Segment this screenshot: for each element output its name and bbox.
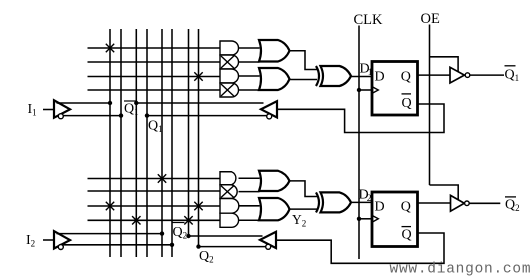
wire I1 input lead: [43, 109, 54, 111]
node junction I2 inverted / column: [170, 243, 174, 247]
bubble on T1 output: [465, 73, 470, 78]
buffer B4 (feedback buffer from FF2, points left): [260, 232, 276, 248]
wire AND-array product line P2: [88, 61, 221, 63]
svg-text:Q: Q: [401, 199, 411, 214]
bubble on B3 inverting output: [267, 114, 272, 119]
svg-text:Q: Q: [402, 96, 412, 111]
wire I2 input lead: [43, 239, 54, 241]
programmed X inside cell A2: [221, 56, 234, 68]
svg-text:D: D: [375, 199, 385, 214]
wire AND-array product line P8: [88, 219, 221, 221]
wire G2 output to X1 lower input: [290, 79, 318, 81]
pin U2 Qbar overline: [402, 226, 412, 228]
wire I1 inverted output to column: [63, 115, 121, 117]
AND-array cell A7: [220, 199, 239, 214]
xor-gate X1 body: [321, 66, 352, 86]
node junction CLK/U1: [357, 88, 361, 92]
programmed X inside cell A4: [221, 84, 234, 96]
node junction Q1 feedback / column: [145, 113, 149, 117]
or-gate G2: [259, 68, 290, 90]
connection cross X at P3-Q2: [194, 72, 202, 80]
wire AND-array product line P6: [88, 190, 221, 192]
wire AND-array product line P1: [88, 47, 221, 49]
wire vertical array line Q2bar feedback: [188, 29, 190, 236]
node Q2bar output label overline: [505, 196, 516, 198]
wire vertical array line Q1bar feedback: [135, 29, 137, 257]
node junction I1 true / column: [108, 101, 112, 105]
wire AND-array product line P7: [88, 205, 221, 207]
node junction Q2 feedback / column: [196, 244, 200, 248]
wire Q2 feedback inverted output to column: [199, 246, 266, 248]
wire U2 Qbar feedback to buffer B4: [276, 233, 444, 263]
wire X2 output to U2 D input: [351, 201, 372, 203]
svg-text:www.diangon.com: www.diangon.com: [390, 262, 531, 278]
wire T2 output lead: [469, 202, 500, 204]
wire U1 Qbar feedback to buffer B3: [277, 104, 444, 133]
connection cross X at P5-I2: [158, 174, 166, 182]
wire I1 true output to column: [57, 102, 111, 104]
wire U2 Q to tri-state T2: [418, 202, 451, 204]
AND-array cell A3: [220, 69, 239, 83]
svg-text:Q: Q: [401, 69, 411, 84]
programmed X inside cell A6: [221, 186, 234, 198]
node junction CLK/U2: [357, 217, 361, 221]
AND-array cell A5: [220, 172, 236, 185]
wire vertical array line I2 complement: [171, 29, 173, 257]
wire cell A7 output stub: [239, 205, 260, 207]
connection cross X at P7-I1: [106, 202, 114, 210]
connection cross X at P8-Q2bar: [184, 216, 192, 224]
AND-array cell A4: [220, 83, 239, 97]
pin U2 clock wedge: [372, 215, 378, 222]
node Q1bar column label overline: [124, 100, 136, 102]
wire AND-array product line P4: [88, 89, 221, 91]
wire CLK to U1 clock: [359, 89, 372, 91]
wire X1 output to U1 D input: [351, 76, 372, 78]
bubble on B1 inverting output: [58, 114, 63, 119]
xor-gate X2 input curve: [316, 192, 319, 212]
AND-array cell A8: [220, 213, 239, 227]
svg-text:CLK: CLK: [354, 12, 384, 28]
wire cell A4 output stub: [239, 89, 260, 91]
node junction I2 true / column: [160, 231, 164, 235]
wire cell A6 output stub: [239, 191, 260, 193]
svg-text:D: D: [375, 70, 385, 85]
wire U1 Q to tri-state T1: [418, 74, 451, 76]
wire cell A3 output stub: [239, 75, 260, 77]
node Q1bar output label overline: [505, 65, 516, 67]
wire Q2bar feedback output to column: [189, 235, 263, 237]
wire vertical array line Q1 feedback: [146, 29, 148, 257]
wire CLK vertical line: [358, 26, 360, 260]
node junction I1 inverted / column: [119, 113, 123, 117]
wire vertical array line Q2 feedback: [198, 29, 200, 247]
or-gate G4: [259, 198, 290, 220]
tri-state inverter T1: [450, 67, 464, 83]
flip-flop U2 box: [372, 192, 418, 247]
wire cell A5 output stub: [239, 177, 260, 179]
wire AND-array product line P3: [88, 76, 221, 78]
flip-flop U1 box: [372, 62, 418, 116]
wire G1 output elbow to X1 upper input: [290, 51, 318, 70]
wire vertical array line I2 true: [161, 29, 163, 257]
wire vertical array line I1 complement: [120, 29, 122, 257]
wire Q1bar feedback output to column: [136, 102, 263, 104]
bubble on B4 inverting output: [266, 244, 271, 249]
svg-text:Q: Q: [402, 228, 412, 243]
AND-array cell A6: [220, 185, 237, 199]
wire vertical array line I1 true: [109, 29, 111, 257]
connection cross X at P8-Q1bar: [132, 216, 140, 224]
node junction Q2bar feedback / column: [186, 234, 190, 238]
wire Q1 feedback inverted output to column: [147, 115, 267, 117]
AND-array cell A1: [220, 41, 239, 55]
wire AND-array product line P5: [88, 178, 221, 180]
connection cross X at P1-I1: [106, 44, 114, 52]
connection cross X at P7-Q2: [194, 202, 202, 210]
xor-gate X1 input curve: [316, 66, 319, 86]
pin U1 clock wedge: [372, 87, 378, 94]
wire I2 true output to column: [57, 233, 163, 235]
wire OE to tri-state T2 enable: [430, 185, 459, 200]
wire T1 output lead: [470, 74, 504, 76]
pin U1 Qbar overline: [402, 93, 412, 95]
tri-state inverter T2: [451, 195, 465, 211]
wire cell A1 output stub: [239, 47, 260, 49]
xor-gate X2 body: [321, 192, 352, 212]
or-gate G1: [259, 40, 290, 62]
wire cell A2 output stub: [239, 61, 260, 63]
wire OE to tri-state T1 enable: [430, 57, 459, 72]
wire CLK to U2 clock: [359, 218, 372, 220]
buffer B3 (feedback buffer from FF1, points left): [261, 101, 277, 117]
wire cell A8 output stub: [239, 219, 260, 221]
wire G4 output to X2 lower input: [290, 208, 318, 210]
buffer B2 (input buffer I2, complementary outputs): [54, 231, 70, 248]
bubble on B2 inverting output: [58, 245, 63, 250]
bubble on T2 output: [465, 201, 470, 206]
AND-array cell A2: [220, 55, 239, 69]
or-gate G3: [259, 171, 290, 191]
buffer B1 (input buffer I1, complementary outputs): [54, 100, 70, 117]
node Q2bar column label overline: [173, 222, 185, 224]
wire G3 output elbow to X2 upper input: [290, 181, 318, 197]
wire OE vertical line: [429, 25, 431, 186]
node junction Q1bar feedback / column: [134, 101, 138, 105]
wire I2 inverted output to column: [63, 244, 172, 246]
